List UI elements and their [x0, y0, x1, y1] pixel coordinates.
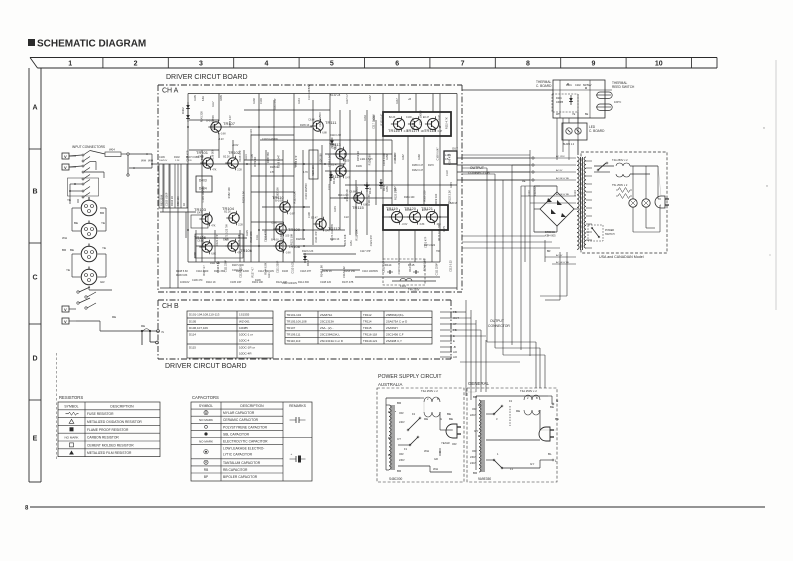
- wires to power supply: [466, 392, 476, 400]
- svg-text:R104 1K: R104 1K: [170, 196, 174, 206]
- svg-text:17K: 17K: [270, 171, 275, 174]
- svg-text:POWER SUPPLY CIRCUIT: POWER SUPPLY CIRCUIT: [378, 374, 442, 380]
- svg-text:C114 100/50V: C114 100/50V: [308, 84, 311, 100]
- svg-text:R131 10K: R131 10K: [290, 233, 294, 245]
- svg-text:-0.6V: -0.6V: [402, 223, 408, 226]
- power transistor group TR119-TR121 box: [383, 205, 448, 230]
- box around TR105 TR106: [195, 234, 243, 258]
- left vertical feeders to bridge: [522, 180, 551, 262]
- svg-text:AC 56.5V RE: AC 56.5V RE: [556, 261, 570, 264]
- svg-text:B: B: [437, 397, 439, 401]
- svg-text:GR: GR: [434, 457, 438, 461]
- power transformer winding: [577, 157, 592, 250]
- svg-text:C6.8K: C6.8K: [308, 118, 315, 121]
- svg-text:WH: WH: [141, 159, 146, 163]
- svg-text:D115: D115: [189, 346, 196, 350]
- svg-text:R113: R113: [245, 154, 248, 160]
- transistor TR104: [222, 206, 244, 227]
- svg-text:DRIVER CIRCUT BOARD: DRIVER CIRCUT BOARD: [165, 363, 247, 370]
- svg-text:C109: C109: [308, 212, 311, 218]
- svg-text:10DC-1R or: 10DC-1R or: [239, 346, 255, 350]
- svg-text:R171 0.22: R171 0.22: [424, 244, 436, 247]
- svg-text:10D85: 10D85: [239, 326, 248, 330]
- svg-text:C106 47P: C106 47P: [186, 150, 190, 162]
- svg-text:B: B: [32, 189, 37, 196]
- svg-text:TR103: TR103: [194, 207, 207, 212]
- svg-text:NO MARK: NO MARK: [199, 439, 213, 443]
- wire bottom left drops: [169, 164, 171, 288]
- transistor TR101: [196, 150, 217, 172]
- svg-text:6.8K: 6.8K: [211, 253, 216, 256]
- svg-text:R139: R139: [253, 98, 256, 104]
- svg-text:R153 150: R153 150: [344, 269, 356, 273]
- svg-text:R155 0.47: R155 0.47: [437, 114, 441, 126]
- svg-text:C120: C120: [250, 129, 253, 135]
- diode: [569, 95, 573, 105]
- svg-text:D201: D201: [556, 97, 562, 100]
- svg-text:OUTPUT: OUTPUT: [490, 319, 504, 323]
- box left of TR103: [191, 215, 208, 228]
- svg-text:OUT: OUT: [452, 147, 458, 151]
- svg-text:2SA562Y: 2SA562Y: [386, 326, 398, 330]
- svg-text:C122: C122: [528, 190, 531, 196]
- svg-text:R118 33K: R118 33K: [201, 235, 205, 246]
- svg-text:R135 1K: R135 1K: [300, 124, 310, 127]
- svg-text:W04: W04: [109, 148, 115, 152]
- svg-text:D110 1.6V: D110 1.6V: [330, 134, 342, 137]
- svg-text:R115 1K: R115 1K: [270, 166, 280, 169]
- svg-text:R136 560: R136 560: [211, 149, 215, 161]
- svg-text:YE: YE: [102, 246, 106, 250]
- svg-text:T4A 250V x 2: T4A 250V x 2: [421, 389, 438, 393]
- svg-text:C121 47P: C121 47P: [369, 235, 373, 247]
- svg-text:TR112: TR112: [363, 313, 372, 317]
- svg-text:NO MARK: NO MARK: [64, 436, 78, 440]
- svg-text:R108 5.6K: R108 5.6K: [176, 269, 188, 273]
- svg-text:WH: WH: [62, 236, 67, 240]
- svg-text:R131 0.5P: R131 0.5P: [274, 98, 277, 110]
- svg-text:47K: 47K: [211, 225, 216, 228]
- svg-text:D405: D405: [220, 95, 223, 101]
- svg-text:R155 0.47: R155 0.47: [228, 115, 232, 127]
- svg-text:C100: C100: [271, 221, 277, 224]
- svg-text:CH A: CH A: [162, 88, 179, 95]
- svg-text:METALIZED OXIDATION RESISTOR: METALIZED OXIDATION RESISTOR: [87, 420, 142, 424]
- australia transformer: [386, 401, 405, 473]
- svg-text:L: L: [555, 459, 557, 463]
- svg-text:7: 7: [461, 61, 465, 68]
- svg-text:2.2K: 2.2K: [175, 160, 180, 162]
- svg-text:R137: R137: [369, 95, 372, 101]
- svg-text:RE: RE: [424, 417, 428, 421]
- svg-text:D106,107,109: D106,107,109: [189, 326, 208, 330]
- svg-text:R119: R119: [294, 162, 297, 168]
- wire rows mid: [244, 109, 330, 111]
- svg-text:9: 9: [591, 61, 595, 68]
- svg-text:R129 56: R129 56: [296, 238, 306, 241]
- svg-text:100/16V: 100/16V: [159, 160, 168, 162]
- svg-text:R162 100: R162 100: [276, 187, 280, 199]
- relay L101 output box: [444, 151, 457, 164]
- diode box D103 D104: [196, 176, 212, 192]
- svg-text:USA and CANADIAN Model: USA and CANADIAN Model: [599, 255, 644, 259]
- svg-text:R161 100: R161 100: [404, 196, 415, 199]
- transistor TR111: [308, 118, 337, 134]
- svg-text:R118 33K: R118 33K: [354, 229, 358, 240]
- svg-text:C: C: [32, 275, 37, 282]
- svg-text:FUSE RESISTOR: FUSE RESISTOR: [87, 412, 114, 416]
- svg-text:D: D: [32, 356, 37, 363]
- svg-text:POLYSTYRENE CAPACITOR: POLYSTYRENE CAPACITOR: [223, 425, 268, 429]
- transistor TR103: [194, 207, 216, 228]
- svg-text:BE: BE: [74, 221, 78, 225]
- svg-text:RB CAPACITOR: RB CAPACITOR: [223, 468, 248, 472]
- diode parts table: [187, 311, 273, 358]
- fuse area D114 D115 dashed box: [383, 259, 425, 285]
- svg-text:220V: 220V: [470, 414, 476, 417]
- svg-text:DESCRIPTION: DESCRIPTION: [110, 404, 134, 408]
- svg-text:AC 86.5V RE: AC 86.5V RE: [556, 177, 570, 180]
- svg-text:68/3WV: 68/3WV: [583, 84, 592, 87]
- svg-text:+0.6V: +0.6V: [232, 144, 239, 147]
- CH B output stub labels: [440, 310, 459, 359]
- svg-text:GENERAL: GENERAL: [468, 381, 490, 386]
- svg-text:+B: +B: [408, 98, 411, 101]
- svg-text:R123 2.2K: R123 2.2K: [448, 190, 452, 202]
- capacitor C115: [415, 270, 417, 274]
- svg-text:R105: R105: [194, 95, 197, 101]
- svg-text:R102: R102: [174, 156, 180, 159]
- svg-text:1S1555: 1S1555: [239, 313, 250, 317]
- svg-text:C117 47P: C117 47P: [360, 250, 371, 253]
- svg-text:R121: R121: [268, 272, 271, 278]
- diode D107: [303, 253, 310, 266]
- svg-text:F101: F101: [400, 284, 406, 288]
- svg-text:D402: D402: [181, 107, 185, 114]
- svg-text:B2.2K: B2.2K: [223, 155, 230, 158]
- svg-text:2SA673A C or D: 2SA673A C or D: [386, 319, 407, 323]
- svg-text:RE: RE: [141, 324, 145, 328]
- DIN connector 3: [62, 244, 106, 262]
- svg-text:C113 0.22: C113 0.22: [448, 260, 452, 272]
- DIN connector 1: [67, 197, 105, 216]
- svg-text:C104 47P: C104 47P: [232, 269, 243, 272]
- svg-text:10DC-4: 10DC-4: [239, 339, 250, 343]
- svg-text:R68 100: R68 100: [176, 196, 180, 206]
- svg-text:C103: C103: [260, 98, 263, 104]
- svg-text:V: V: [64, 165, 67, 170]
- svg-text:KBH-005: KBH-005: [545, 234, 556, 238]
- svg-text:3300/50V: 3300/50V: [535, 186, 537, 196]
- svg-text:R151: R151: [350, 240, 353, 246]
- pilot lamps: [629, 166, 660, 232]
- svg-text:R127 4.7: R127 4.7: [250, 267, 254, 278]
- input selector switches: [68, 151, 106, 205]
- svg-text:R152 1K: R152 1K: [200, 150, 204, 160]
- thermal reed switch: [596, 81, 635, 110]
- transistor TR117: [406, 116, 425, 133]
- transistor TR108: [271, 238, 300, 254]
- svg-text:C113: C113: [328, 184, 331, 190]
- svg-text:BL: BL: [548, 452, 552, 456]
- svg-text:R125: R125: [246, 230, 249, 236]
- svg-text:INPUT CONNECTORS: INPUT CONNECTORS: [72, 145, 105, 149]
- svg-text:C104 100/50V: C104 100/50V: [201, 186, 205, 203]
- svg-text:R167: R167: [402, 154, 405, 160]
- svg-text:SBL CAPACITOR: SBL CAPACITOR: [223, 432, 250, 436]
- svg-text:TR112: TR112: [328, 226, 340, 231]
- svg-text:D111: D111: [332, 177, 336, 184]
- svg-text:R127 4.7: R127 4.7: [346, 94, 349, 104]
- svg-text:R149 1K: R149 1K: [330, 238, 340, 241]
- svg-text:BR: BR: [547, 250, 551, 253]
- svg-text:TR104: TR104: [222, 206, 235, 211]
- svg-text:2SC1384(2)K,L: 2SC1384(2)K,L: [320, 333, 340, 337]
- svg-text:CEMENT MOLDED RESISTOR: CEMENT MOLDED RESISTOR: [87, 443, 134, 447]
- LED C board: [562, 118, 605, 160]
- transistor TR102: [223, 150, 242, 172]
- svg-text:RB: RB: [204, 468, 208, 472]
- transistor TR121: [421, 206, 441, 226]
- svg-text:R143: R143: [298, 98, 301, 104]
- fold dashed line left: [56, 353, 58, 460]
- svg-text:C111 220P: C111 220P: [435, 263, 439, 276]
- svg-text:2SC1313A: 2SC1313A: [320, 319, 334, 323]
- svg-text:100/10V: 100/10V: [180, 280, 190, 284]
- svg-text:-8.2V: -8.2V: [218, 138, 224, 141]
- svg-text:R109 330: R109 330: [367, 194, 371, 206]
- svg-text:SWITCH: SWITCH: [605, 233, 615, 236]
- svg-text:R63 220K: R63 220K: [160, 194, 164, 206]
- svg-text:100: 100: [285, 235, 290, 238]
- svg-text:LYTIC CAPACITOR: LYTIC CAPACITOR: [223, 453, 253, 457]
- svg-text:E0.47: E0.47: [423, 116, 430, 119]
- svg-text:D106: D106: [255, 279, 261, 282]
- wire row TR107-TR111: [210, 126, 312, 128]
- svg-text:R175: R175: [443, 226, 446, 232]
- svg-text:1: 1: [68, 61, 72, 68]
- transistor TR114: [329, 163, 351, 179]
- svg-text:SCHEMATIC DIAGRAM: SCHEMATIC DIAGRAM: [37, 39, 146, 50]
- svg-text:R123 2.2K: R123 2.2K: [242, 191, 246, 203]
- power switch and fuse USA: [588, 158, 658, 241]
- svg-text:CONNECTOR: CONNECTOR: [488, 324, 510, 328]
- svg-text:C. BOARD: C. BOARD: [589, 129, 605, 133]
- svg-text:DRIVER CIRCUT BOARD: DRIVER CIRCUT BOARD: [166, 74, 248, 81]
- diode D113: [379, 179, 386, 191]
- svg-text:TANTALUM CAPACITOR: TANTALUM CAPACITOR: [223, 461, 261, 465]
- svg-text:-0.6V: -0.6V: [289, 213, 295, 216]
- svg-text:T5L 250V x 2: T5L 250V x 2: [612, 183, 628, 187]
- svg-text:0.22: 0.22: [344, 216, 349, 219]
- transistor TR116: [388, 116, 409, 133]
- svg-text:2: 2: [134, 61, 138, 68]
- svg-text:R157: R157: [394, 186, 397, 192]
- svg-text:R171 0.22 7W: R171 0.22 7W: [437, 224, 441, 241]
- svg-text:RE: RE: [516, 409, 520, 413]
- svg-text:R136 560: R136 560: [266, 152, 270, 164]
- general transformer: [470, 395, 484, 475]
- resistor column R101-R112 vertical labels: [159, 156, 199, 208]
- svg-text:C107 0.47/50V: C107 0.47/50V: [262, 138, 278, 141]
- svg-text:-0.6V: -0.6V: [285, 252, 291, 255]
- svg-text:T4A 250V: T4A 250V: [408, 288, 420, 292]
- svg-text:47K: 47K: [212, 169, 217, 172]
- USA and CANADIAN model dashed box: [581, 152, 667, 253]
- svg-text:R139 1K: R139 1K: [322, 269, 332, 273]
- svg-text:MYLAR CAPACITOR: MYLAR CAPACITOR: [223, 411, 255, 415]
- transistor TR110: [272, 195, 295, 216]
- svg-text:TR119-121: TR119-121: [363, 339, 378, 343]
- svg-text:AC 0V: AC 0V: [556, 254, 563, 257]
- svg-text:C121 47P: C121 47P: [215, 234, 219, 246]
- svg-text:C106 470: C106 470: [192, 279, 203, 282]
- svg-text:SYMBOL: SYMBOL: [64, 404, 78, 408]
- svg-text:8: 8: [526, 61, 530, 68]
- svg-text:BIPOLER CAPACITOR: BIPOLER CAPACITOR: [223, 475, 258, 479]
- svg-text:R155 0.47: R155 0.47: [380, 113, 384, 125]
- svg-text:D101-104,108,110-113: D101-104,108,110-113: [189, 313, 220, 317]
- wire RE to CH B: [76, 315, 164, 345]
- svg-text:B: B: [536, 396, 538, 400]
- svg-text:V: V: [64, 319, 67, 324]
- svg-text:D403: D403: [199, 179, 207, 183]
- svg-text:BE: BE: [449, 417, 453, 421]
- top ruler: [30, 58, 717, 69]
- svg-text:WZ-061: WZ-061: [239, 320, 250, 324]
- svg-text:A: A: [32, 105, 37, 112]
- svg-text:D108: D108: [373, 115, 376, 121]
- svg-text:AC 125V: AC 125V: [556, 155, 565, 158]
- svg-text:SYMBOL: SYMBOL: [199, 404, 213, 408]
- svg-text:R111 330: R111 330: [214, 269, 225, 273]
- CH A dash-dot border: [158, 85, 462, 292]
- svg-text:R141 220: R141 220: [338, 194, 349, 197]
- svg-text:230V: 230V: [470, 456, 476, 459]
- wire junction dots: [187, 126, 441, 247]
- svg-text:230V: 230V: [399, 459, 405, 462]
- scan edge line right: [775, 60, 777, 310]
- svg-text:YE: YE: [67, 198, 71, 202]
- svg-text:B1.2V +B: B1.2V +B: [330, 94, 341, 97]
- svg-text:CH B: CH B: [162, 303, 179, 310]
- DIN connector 4: [66, 267, 105, 285]
- svg-text:C102 .056P: C102 .056P: [165, 192, 169, 206]
- svg-text:6.8K: 6.8K: [322, 132, 327, 135]
- vertical bus wires right of CH B: [452, 300, 510, 392]
- svg-text:YE: YE: [66, 268, 70, 272]
- svg-text:R131 10K: R131 10K: [343, 234, 347, 246]
- svg-text:BE: BE: [555, 417, 559, 421]
- svg-text:R131 10K: R131 10K: [237, 234, 241, 246]
- svg-text:TR110,113: TR110,113: [287, 339, 301, 343]
- svg-text:TR116-118: TR116-118: [363, 333, 377, 337]
- AC plug USA: [655, 166, 669, 232]
- svg-text:BE: BE: [447, 412, 451, 416]
- bridge rectifier KBH-005: [528, 186, 578, 238]
- svg-text:POWER: POWER: [605, 229, 614, 232]
- svg-text:WH: WH: [433, 467, 438, 471]
- svg-text:METALIZED FILM RESISTOR: METALIZED FILM RESISTOR: [87, 451, 132, 455]
- svg-text:AC 8V: AC 8V: [556, 169, 563, 172]
- CH B dash-dot border: [158, 300, 451, 359]
- svg-text:R107 2200: R107 2200: [232, 264, 244, 267]
- svg-text:B2.2K: B2.2K: [389, 116, 396, 119]
- svg-text:2SA872A: 2SA872A: [320, 313, 332, 317]
- svg-text:T4A 250V x 2: T4A 250V x 2: [612, 158, 628, 162]
- svg-text:C112 100/10V: C112 100/10V: [258, 269, 274, 273]
- svg-text:YE: YE: [572, 113, 576, 116]
- svg-text:TR121: TR121: [421, 206, 434, 211]
- svg-text:-B: -B: [453, 345, 456, 349]
- capacitor C114: [389, 270, 391, 274]
- svg-text:160°C: 160°C: [614, 100, 621, 104]
- svg-text:R133: R133: [364, 115, 367, 121]
- svg-text:240V: 240V: [470, 462, 476, 465]
- svg-text:T4A 250V x 2: T4A 250V x 2: [520, 389, 537, 393]
- svg-text:NO MARK: NO MARK: [199, 418, 213, 422]
- svg-text:C123: C123: [574, 190, 577, 196]
- svg-text:C117 10/50V: C117 10/50V: [318, 112, 322, 127]
- transistor TR118: [423, 116, 443, 133]
- svg-text:R136 560: R136 560: [319, 153, 323, 165]
- phono jack V2: [62, 164, 76, 170]
- svg-text:R141 220: R141 220: [411, 117, 415, 129]
- svg-text:R109: R109: [194, 252, 197, 258]
- svg-text:L101 1.5uH: L101 1.5uH: [360, 158, 373, 161]
- svg-text:2SA...(2)...: 2SA...(2)...: [320, 326, 334, 330]
- wire verticals left block: [187, 94, 189, 263]
- svg-text:TR107: TR107: [287, 326, 296, 330]
- svg-text:TR116: TR116: [388, 128, 400, 133]
- svg-text:R162 0.47: R162 0.47: [412, 169, 424, 172]
- svg-text:R123 2.2K: R123 2.2K: [292, 191, 296, 203]
- svg-text:R162 100: R162 100: [227, 187, 231, 199]
- svg-text:B-0.6V: B-0.6V: [271, 238, 279, 241]
- phono jack V1: [62, 153, 76, 159]
- wires down to power supply: [535, 342, 537, 388]
- svg-text:TR109: TR109: [288, 227, 301, 232]
- svg-text:R123 2.2K: R123 2.2K: [302, 250, 314, 253]
- svg-text:BE: BE: [70, 248, 74, 252]
- svg-text:REED SWITCH: REED SWITCH: [612, 85, 635, 89]
- svg-text:2SC1313A C or D: 2SC1313A C or D: [320, 339, 343, 343]
- svg-text:V: V: [64, 154, 67, 159]
- svg-text:REMARKS: REMARKS: [289, 404, 307, 408]
- svg-text:C111 220P: C111 220P: [275, 260, 279, 273]
- svg-text:C104 100/50V: C104 100/50V: [355, 186, 359, 203]
- svg-text:C109: C109: [159, 156, 165, 159]
- svg-text:R173: R173: [450, 182, 453, 188]
- svg-text:2SC1456 C,F: 2SC1456 C,F: [386, 333, 404, 337]
- diode D110: [330, 138, 337, 151]
- diode D111: [329, 171, 336, 184]
- svg-text:R144 6.8K: R144 6.8K: [422, 259, 426, 271]
- svg-text:C117 10/50V: C117 10/50V: [418, 110, 422, 125]
- svg-text:0.47: 0.47: [438, 130, 443, 133]
- transistor TR120: [404, 206, 425, 226]
- svg-text:CT: CT: [397, 437, 401, 441]
- svg-text:R171 0.22 7W: R171 0.22 7W: [225, 224, 229, 241]
- diode D404: [186, 112, 190, 122]
- svg-text:R141 220: R141 220: [200, 111, 204, 123]
- diode D112: [365, 182, 372, 194]
- svg-text:C118 47P: C118 47P: [300, 269, 311, 273]
- svg-text:D109: D109: [356, 165, 362, 168]
- svg-text:C104 100/50V: C104 100/50V: [304, 183, 308, 200]
- transistor TR105: [194, 235, 217, 256]
- svg-text:RE: RE: [522, 180, 526, 183]
